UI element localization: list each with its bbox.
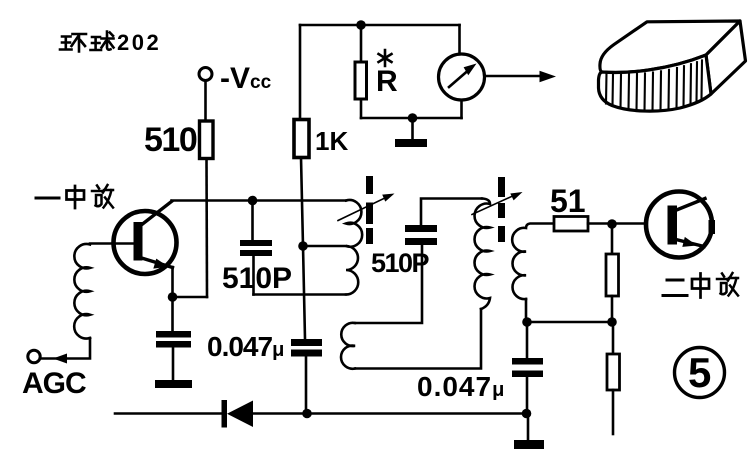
capacitor 510P second xyxy=(421,199,482,226)
capacitor 0.047u second xyxy=(526,322,529,358)
resistor R* xyxy=(355,62,367,99)
terminal AGC xyxy=(28,350,40,362)
node T1 tap xyxy=(298,241,308,251)
wire T2 secondary bottom xyxy=(525,299,528,322)
svg-text:202: 202 xyxy=(117,30,161,55)
wire T1 bottom link xyxy=(254,293,347,296)
meter M1 xyxy=(439,54,485,100)
node Q1 emitter xyxy=(168,292,178,302)
svg-text:510P: 510P xyxy=(222,262,292,295)
ground emitter xyxy=(155,380,192,388)
wire R top lead xyxy=(360,25,363,62)
wire meter top lead xyxy=(458,25,461,54)
node bottom right xyxy=(522,409,532,419)
svg-text:R: R xyxy=(376,65,398,98)
wire bottom rail left xyxy=(115,412,222,415)
coil T1 secondary xyxy=(341,323,355,369)
node top rail / R xyxy=(356,20,366,30)
wire meter bottom rail xyxy=(361,117,462,120)
svg-text:510: 510 xyxy=(144,121,197,159)
ground bottom right xyxy=(527,414,530,441)
hanzi qiu xyxy=(91,32,114,51)
wire arrow to detector block xyxy=(485,75,542,78)
coil T2 primary xyxy=(475,199,490,310)
svg-text:0.047μ: 0.047μ xyxy=(207,331,283,362)
hanzi huan xyxy=(60,34,86,52)
wire bottom rail right xyxy=(253,412,527,415)
coil T2 secondary xyxy=(512,224,553,300)
wire top rail xyxy=(300,24,460,27)
core T2 xyxy=(498,177,505,242)
capacitor emitter bypass xyxy=(171,297,174,331)
coil L1 AGC winding xyxy=(74,244,90,339)
wire Q1 emitter xyxy=(173,267,208,297)
wire meter bottom lead xyxy=(460,100,463,118)
node bottom rail xyxy=(302,409,312,419)
label 二中放 xyxy=(663,273,738,298)
figure number 5 xyxy=(675,348,725,398)
wire 51 to Q2 xyxy=(588,222,645,225)
wire T1 secondary bottom xyxy=(355,309,481,369)
wire T1 tap xyxy=(303,245,346,248)
label 一中放 xyxy=(36,185,113,208)
node meter ground xyxy=(408,113,418,123)
capacitor 510P first xyxy=(251,201,254,241)
diode D1 xyxy=(222,400,228,428)
node Q2 base xyxy=(607,219,617,229)
detector block 3D xyxy=(599,21,746,111)
node resistor junction xyxy=(607,317,617,327)
resistor lower xyxy=(612,322,615,354)
terminal -Vcc xyxy=(199,68,212,81)
transistor Q1 一中放 xyxy=(114,211,177,274)
wire Q1 base xyxy=(90,242,136,245)
capacitor 0.047u first xyxy=(291,339,322,346)
core T1 xyxy=(366,176,373,244)
svg-text:1K: 1K xyxy=(315,126,348,156)
coil T1 primary xyxy=(346,200,362,295)
node cap1 top xyxy=(248,196,258,206)
wire R bottom lead xyxy=(360,99,363,118)
title 环球202 xyxy=(60,32,114,52)
node T2 bottom xyxy=(522,317,532,327)
resistor base upper xyxy=(611,224,614,254)
svg-text:5: 5 xyxy=(688,349,711,396)
svg-text:510P: 510P xyxy=(371,248,430,278)
ground meter xyxy=(411,118,414,139)
wire bias rail xyxy=(527,321,612,324)
resistor 510 xyxy=(200,121,214,159)
transistor Q2 二中放 xyxy=(646,192,712,258)
wire 1K rail xyxy=(300,25,306,414)
wire Vcc lead xyxy=(204,81,207,122)
resistor 1K xyxy=(294,120,309,158)
wire 510 to emitter node xyxy=(205,159,208,298)
svg-text:51: 51 xyxy=(550,183,586,219)
wire AGC xyxy=(40,338,90,359)
svg-text:AGC: AGC xyxy=(22,367,86,400)
wire Q1 collector rail xyxy=(172,199,347,202)
